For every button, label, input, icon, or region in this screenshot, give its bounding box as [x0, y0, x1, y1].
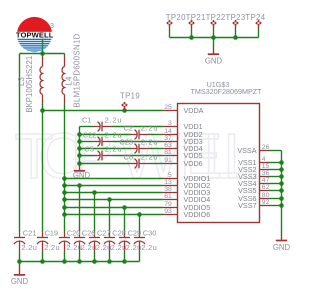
svg-text:2.2u: 2.2u — [126, 243, 142, 252]
svg-text:81: 81 — [164, 149, 172, 156]
svg-text:BKP1005HS221: BKP1005HS221 — [25, 56, 34, 113]
svg-text:C2: C2 — [124, 123, 133, 132]
svg-text:63: 63 — [164, 142, 172, 149]
svg-text:25: 25 — [164, 104, 172, 111]
svg-text:C30: C30 — [143, 229, 157, 238]
svg-text:80: 80 — [262, 192, 270, 199]
svg-text:2.2u: 2.2u — [81, 243, 97, 252]
svg-text:2.2u: 2.2u — [141, 152, 158, 161]
svg-text:13: 13 — [164, 179, 172, 186]
svg-text:VDDA: VDDA — [184, 106, 204, 115]
svg-text:2.2u: 2.2u — [44, 243, 60, 252]
svg-text:TOPWELL: TOPWELL — [16, 31, 54, 40]
svg-text:4: 4 — [262, 156, 266, 163]
svg-text:TP19: TP19 — [120, 92, 140, 101]
svg-text:C5: C5 — [85, 144, 94, 153]
svg-text:VDD6: VDD6 — [184, 159, 203, 168]
svg-text:2.2u: 2.2u — [141, 137, 158, 146]
svg-text:GND: GND — [205, 57, 223, 66]
svg-text:14: 14 — [164, 128, 172, 135]
svg-text:C1: C1 — [82, 115, 91, 124]
svg-text:2.2u: 2.2u — [141, 123, 158, 132]
svg-text:C6: C6 — [124, 152, 133, 161]
svg-text:C26: C26 — [82, 229, 96, 238]
svg-text:VSS7: VSS7 — [238, 201, 256, 210]
svg-text:2.2u: 2.2u — [141, 243, 157, 252]
svg-text:15: 15 — [262, 163, 270, 170]
svg-text:47: 47 — [262, 177, 270, 184]
svg-text:TP23: TP23 — [225, 13, 245, 22]
svg-text:TP24: TP24 — [245, 13, 265, 22]
svg-text:TMS320F28069MPZT: TMS320F28069MPZT — [190, 87, 262, 96]
svg-text:TP20: TP20 — [166, 13, 186, 22]
svg-text:61: 61 — [164, 193, 172, 200]
svg-text:2.2u: 2.2u — [21, 243, 37, 252]
svg-text:2.2u: 2.2u — [96, 243, 112, 252]
svg-text:TP22: TP22 — [206, 13, 226, 22]
svg-text:37: 37 — [164, 135, 172, 142]
svg-text:26: 26 — [262, 144, 270, 151]
svg-text:5: 5 — [168, 172, 172, 179]
svg-text:C20: C20 — [67, 229, 81, 238]
svg-text:C22: C22 — [83, 130, 97, 139]
svg-text:2.2u: 2.2u — [105, 115, 122, 124]
svg-text:VDDIO6: VDDIO6 — [184, 210, 211, 219]
svg-text:C19: C19 — [45, 229, 59, 238]
svg-text:92: 92 — [262, 199, 270, 206]
svg-text:C29: C29 — [128, 229, 142, 238]
svg-text:TP21: TP21 — [186, 13, 206, 22]
svg-text:79: 79 — [164, 201, 172, 208]
svg-text:91: 91 — [164, 157, 172, 164]
svg-text:GND: GND — [273, 243, 291, 252]
svg-text:93: 93 — [164, 208, 172, 215]
svg-text:2.2u: 2.2u — [105, 144, 122, 153]
svg-text:C27: C27 — [97, 229, 111, 238]
svg-text:38: 38 — [164, 186, 172, 193]
svg-text:62: 62 — [262, 184, 270, 191]
svg-text:C28: C28 — [112, 229, 126, 238]
svg-text:3: 3 — [168, 120, 172, 127]
svg-text:2.2u: 2.2u — [111, 243, 127, 252]
svg-text:VSSA: VSSA — [237, 146, 256, 155]
svg-text:C21: C21 — [23, 229, 37, 238]
svg-text:BLM15PD600SN1D: BLM15PD600SN1D — [72, 33, 81, 107]
svg-text:36: 36 — [262, 170, 270, 177]
svg-text:GND: GND — [11, 277, 29, 286]
